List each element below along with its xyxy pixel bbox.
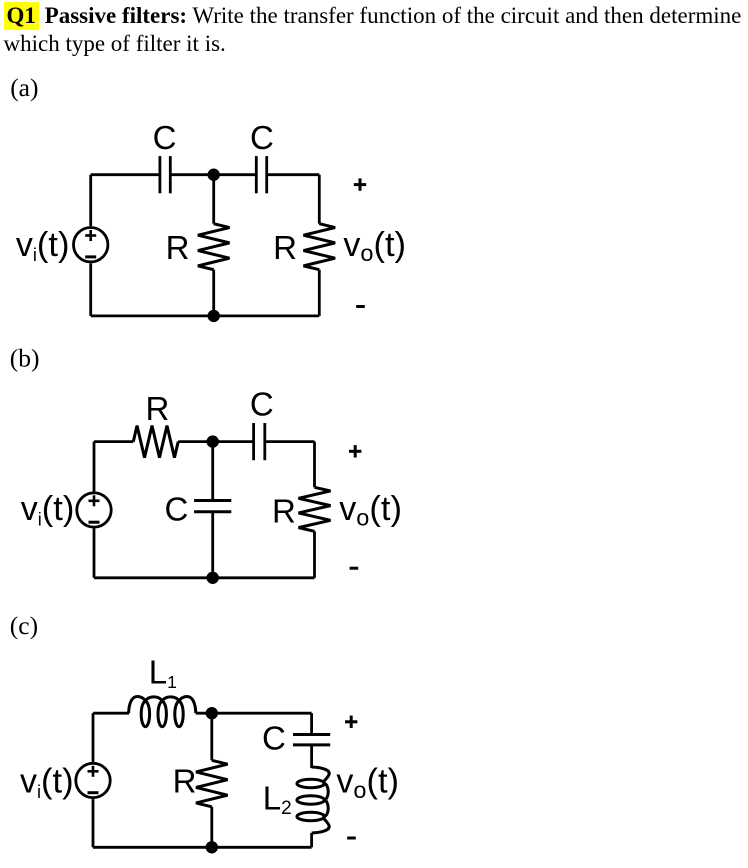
svg-text:vo(t): vo(t) [336,763,399,803]
svg-text:R: R [166,229,190,266]
svg-text:R: R [272,492,296,529]
svg-text:C: C [164,490,188,527]
svg-text:vo(t): vo(t) [343,226,406,266]
svg-text:L2: L2 [263,779,292,819]
svg-text:C: C [250,119,274,156]
svg-text:R: R [145,390,169,427]
svg-text:(a): (a) [10,73,38,102]
svg-text:R: R [273,229,297,266]
svg-text:vi(t): vi(t) [20,763,74,802]
svg-text:vo(t): vo(t) [339,490,402,530]
svg-text:L1: L1 [149,654,177,692]
svg-text:C: C [250,386,274,423]
svg-text:C: C [262,719,286,756]
svg-text:vi(t): vi(t) [16,226,70,265]
svg-text:(c): (c) [10,611,38,640]
svg-text:(b): (b) [10,344,40,373]
svg-text:C: C [153,119,177,156]
svg-text:R: R [173,762,197,799]
svg-text:vi(t): vi(t) [21,490,75,529]
